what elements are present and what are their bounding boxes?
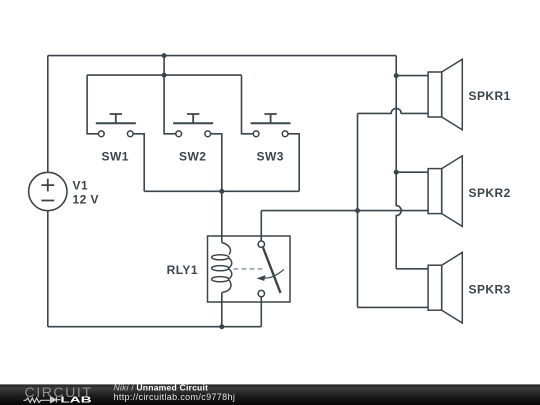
svg-text:RLY1: RLY1 [167,263,198,277]
svg-text:SW3: SW3 [257,150,284,164]
svg-text:SPKR2: SPKR2 [469,186,511,200]
relay switch contacts [258,241,264,247]
wire V1 bottom lead [47,211,49,327]
svg-text:V1: V1 [73,179,89,193]
wire top rail [48,55,396,57]
wire SPKR1 bottom lead with hop over right rail [358,108,429,113]
node switch top bus / SW2 [162,73,167,78]
speaker SPKR3 [428,252,462,323]
speaker SPKR1 [428,59,462,130]
relay RLY1 [208,236,291,302]
wire relay switch top lead [260,211,262,241]
wire SW3 left lead [242,75,254,134]
wire SW2 left lead [164,56,176,134]
relay switch blade [263,248,281,293]
node bottom rail / relay coil [219,324,224,329]
relay coil [222,243,231,255]
svg-text:SPKR1: SPKR1 [469,89,511,103]
wire switch top bus [87,74,241,76]
wire switch bottom bus [144,190,299,192]
wire SPKR1 top lead [396,75,428,77]
switch SW1 [96,114,136,137]
svg-text:SW1: SW1 [102,150,129,164]
switch SW3 [251,114,291,137]
speaker SPKR2 [428,156,462,227]
svg-text:Niki / Unnamed Circuit: Niki / Unnamed Circuit [114,382,209,392]
wire relay coil top lead [221,191,223,242]
node right rail / SPKR2 top [394,170,399,175]
wire relay coil bottom lead [221,293,223,327]
wire V1 top lead [47,56,49,173]
relay actuation dashed link [234,268,266,270]
switch SW2 [173,114,213,137]
wire left return rail [357,113,359,307]
node left return rail / SPKR2 bottom [355,208,360,213]
logo resistor and diode glyph [23,397,60,403]
wire SW1 left lead [87,75,98,134]
svg-text:SW2: SW2 [179,150,206,164]
wire bottom rail [48,326,261,328]
node right rail / SPKR1 top [394,73,399,78]
wire relay switch to SPKR2 bottom [261,210,428,212]
wire SW3 right lead [288,134,299,192]
svg-text:SPKR3: SPKR3 [469,283,511,297]
node switch bottom bus / relay coil [219,189,224,194]
wire SW2 right lead [211,134,222,192]
voltage source V1 [29,172,67,210]
wire SPKR2 top lead [396,171,428,173]
wire SW1 right lead [133,134,144,192]
svg-text:LAB: LAB [60,396,92,405]
wire relay switch bottom lead [260,297,262,327]
svg-text:12 V: 12 V [73,193,100,207]
node top rail / SW2 link [162,53,167,58]
svg-text:http://circuitlab.com/c9778hj: http://circuitlab.com/c9778hj [114,392,236,402]
relay actuation arrow [264,269,285,278]
wire SPKR3 top lead [396,268,428,270]
wire SPKR3 bottom lead [358,306,429,308]
wire right rail with hop over SPKR2 bottom wire [396,56,401,269]
